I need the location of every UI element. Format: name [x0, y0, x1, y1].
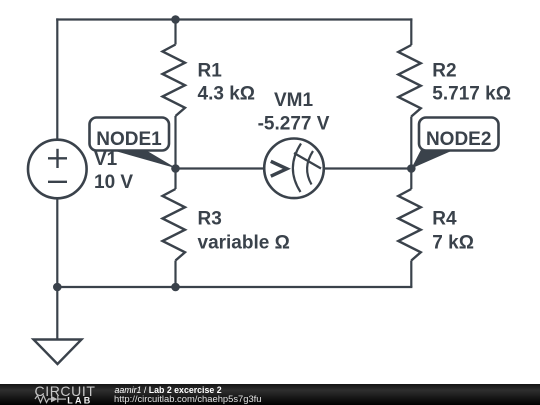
footer bar	[0, 384, 540, 405]
svg-text:LAB: LAB	[67, 396, 92, 405]
svg-text:5.717 kΩ: 5.717 kΩ	[432, 84, 511, 105]
svg-text:-5.277 V: -5.277 V	[258, 114, 330, 135]
svg-text:4.3 kΩ: 4.3 kΩ	[198, 84, 256, 105]
voltage source V1	[28, 140, 87, 199]
svg-text:http://circuitlab.com/chaehp5s: http://circuitlab.com/chaehp5s7g3fu	[114, 393, 261, 404]
wire middle right (VM1 to NODE2)	[324, 167, 412, 169]
svg-text:NODE2: NODE2	[426, 129, 491, 150]
svg-text:R4: R4	[432, 209, 457, 230]
wire left vertical (top of V1)	[56, 18, 58, 141]
junction bottom left	[53, 283, 62, 292]
resistor R2	[398, 18, 421, 168]
wire top horizontal	[56, 18, 412, 20]
junction node A (NODE1)	[171, 164, 180, 173]
svg-text:V1: V1	[94, 149, 118, 170]
junction node B (NODE2)	[407, 164, 416, 173]
svg-text:variable Ω: variable Ω	[198, 232, 290, 253]
junction top (R1 tap)	[171, 15, 180, 24]
ground	[34, 287, 82, 364]
wire left vertical (bottom of V1)	[56, 198, 58, 287]
voltmeter VM1	[264, 139, 324, 199]
wire bottom horizontal	[57, 286, 412, 288]
node NODE1 callout	[90, 118, 177, 169]
svg-text:10 V: 10 V	[94, 172, 133, 193]
svg-text:R1: R1	[198, 60, 223, 81]
svg-text:NODE1: NODE1	[96, 129, 162, 150]
svg-text:VM1: VM1	[274, 90, 314, 111]
footer logo resistor-diode glyph	[35, 396, 66, 403]
node NODE2 callout	[411, 118, 498, 169]
svg-text:R2: R2	[432, 61, 456, 82]
resistor R1	[163, 20, 186, 169]
resistor R3	[163, 169, 186, 288]
wire middle left (NODE1 to VM1)	[176, 167, 265, 169]
resistor R4	[398, 169, 421, 288]
junction bottom (R3 tap)	[171, 283, 180, 292]
svg-text:R3: R3	[198, 209, 222, 230]
svg-text:7 kΩ: 7 kΩ	[432, 232, 474, 253]
